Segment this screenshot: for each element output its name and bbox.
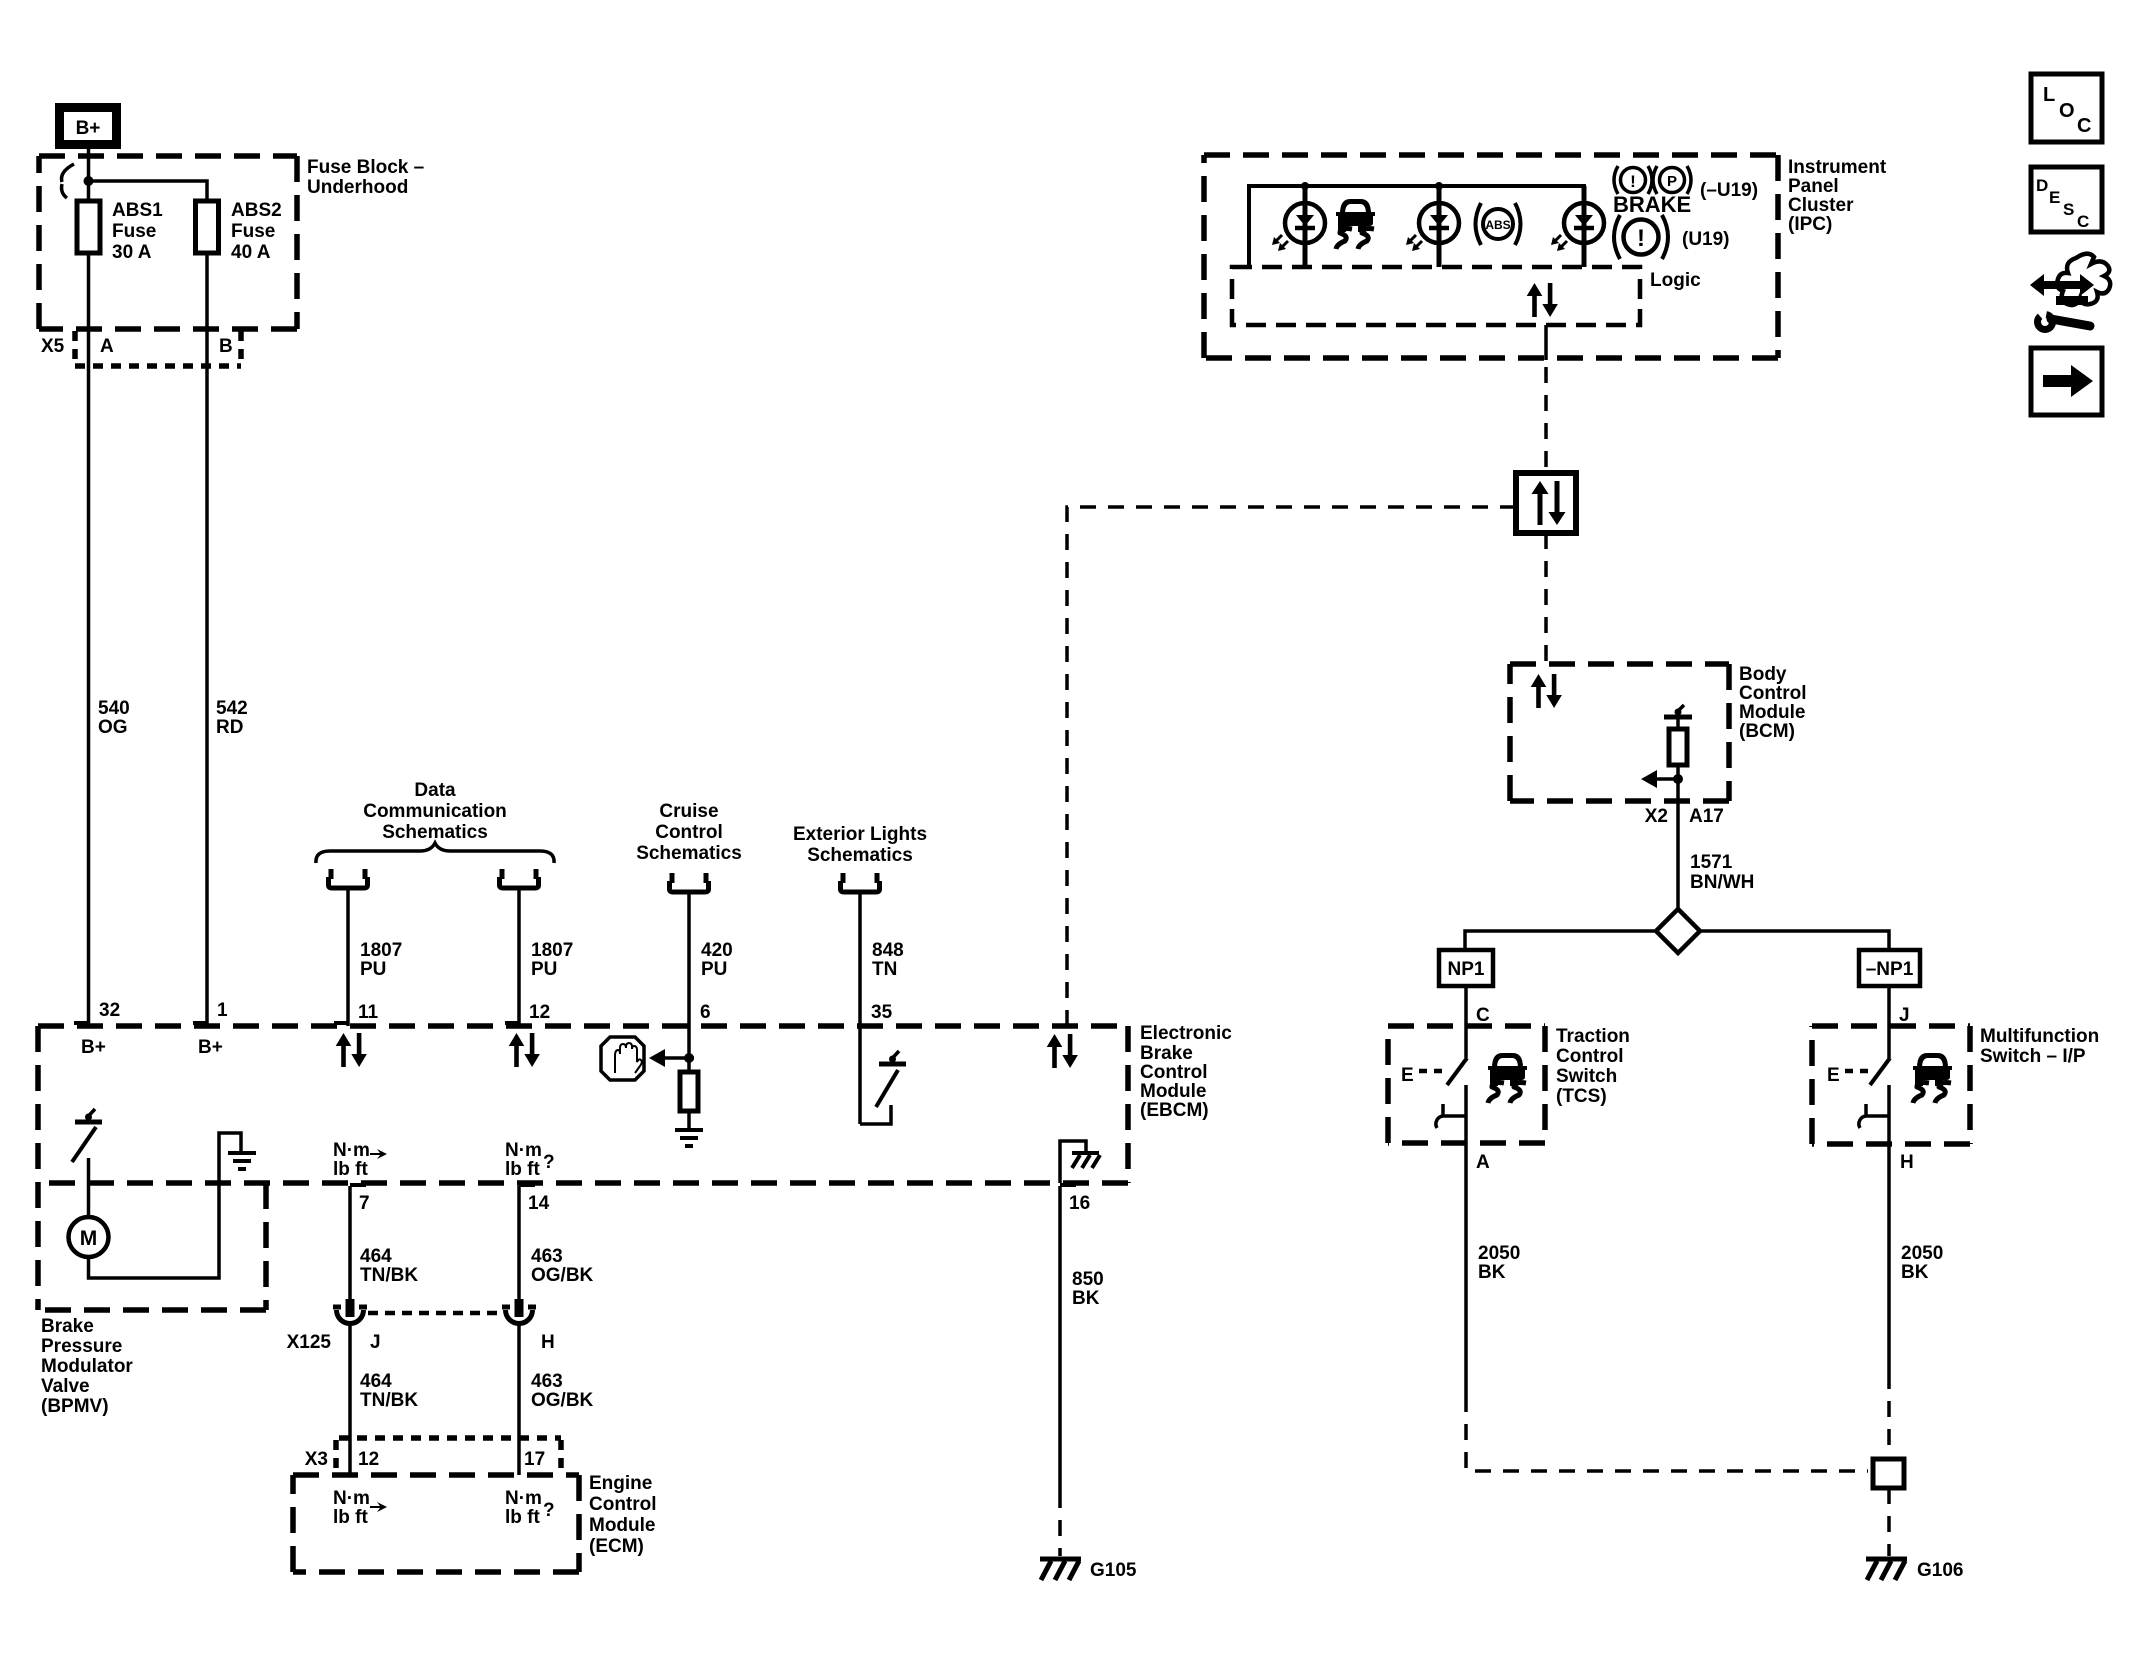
label 464 TN/BK lower bbox=[360, 1371, 418, 1411]
svg-text:–NP1: –NP1 bbox=[1866, 959, 1914, 980]
module ECM box bbox=[293, 1475, 579, 1572]
svg-text:Valve: Valve bbox=[41, 1376, 90, 1397]
pin 11 bbox=[334, 1002, 379, 1023]
svg-text:lb ft: lb ft bbox=[505, 1159, 540, 1180]
wire logic to IPC edge bbox=[1544, 325, 1548, 360]
datalink arrows below pin 12 bbox=[509, 1033, 540, 1067]
icon arrow next bbox=[2031, 348, 2102, 415]
svg-text:J: J bbox=[1899, 1005, 1910, 1026]
svg-text:OG/BK: OG/BK bbox=[531, 1265, 594, 1286]
svg-text:A: A bbox=[1476, 1152, 1490, 1173]
svg-text:!: ! bbox=[1637, 225, 1645, 252]
svg-text:(IPC): (IPC) bbox=[1788, 214, 1832, 235]
svg-text:6: 6 bbox=[700, 1002, 711, 1023]
svg-text:E: E bbox=[1401, 1065, 1414, 1086]
svg-text:H: H bbox=[1900, 1152, 1914, 1173]
wire 848 TN bbox=[858, 892, 862, 1124]
lamp brake indicator bbox=[1551, 203, 1604, 251]
svg-text:Fuse Block –: Fuse Block – bbox=[307, 157, 424, 178]
svg-text:OG/BK: OG/BK bbox=[531, 1390, 594, 1411]
wire dashed left to splice square bbox=[1466, 1396, 1868, 1471]
label ABS1 fuse bbox=[112, 200, 163, 263]
svg-text:Switch – I/P: Switch – I/P bbox=[1980, 1046, 2086, 1067]
svg-text:lb ft: lb ft bbox=[505, 1507, 540, 1528]
svg-text:X3: X3 bbox=[305, 1449, 328, 1470]
ground earth inside EBCM left bbox=[228, 1153, 256, 1169]
module EBCM box bbox=[38, 1026, 1128, 1310]
svg-text:30 A: 30 A bbox=[112, 242, 152, 263]
svg-text:Schematics: Schematics bbox=[807, 845, 913, 866]
wire 542 RD vertical to EBCM pin 1 bbox=[205, 201, 209, 1026]
ground G105 bbox=[1040, 1559, 1137, 1581]
svg-text:Traction: Traction bbox=[1556, 1026, 1630, 1047]
svg-text:X125: X125 bbox=[287, 1332, 332, 1353]
wire motor return bbox=[89, 1133, 242, 1278]
splice diamond bbox=[1656, 909, 1700, 953]
ground earth cruise bbox=[675, 1130, 703, 1146]
resistor BCM pullup bbox=[1664, 705, 1692, 911]
label 1807 PU right bbox=[531, 940, 573, 980]
svg-text:35: 35 bbox=[871, 1002, 893, 1023]
svg-text:464: 464 bbox=[360, 1246, 392, 1267]
svg-text:463: 463 bbox=[531, 1371, 563, 1392]
switch MFS bbox=[1827, 1058, 1890, 1186]
svg-text:Schematics: Schematics bbox=[636, 843, 742, 864]
svg-text:Electronic: Electronic bbox=[1140, 1023, 1232, 1044]
wire dashed to G105 bbox=[1058, 1492, 1062, 1556]
module IPC box bbox=[1204, 155, 1778, 358]
svg-text:TN/BK: TN/BK bbox=[360, 1390, 418, 1411]
svg-text:J: J bbox=[370, 1332, 381, 1353]
svg-text:850: 850 bbox=[1072, 1269, 1104, 1290]
svg-text:463: 463 bbox=[531, 1246, 563, 1267]
module BCM box bbox=[1510, 664, 1729, 801]
svg-text:Cluster: Cluster bbox=[1788, 195, 1854, 216]
svg-text:1807: 1807 bbox=[360, 940, 402, 961]
svg-text:Control: Control bbox=[1140, 1062, 1208, 1083]
svg-text:Brake: Brake bbox=[41, 1316, 94, 1337]
svg-text:Fuse: Fuse bbox=[112, 221, 156, 242]
wire splice left to NP1 bbox=[1465, 931, 1656, 950]
junction node bbox=[84, 176, 94, 186]
icon diagnostic pointer bbox=[2030, 254, 2110, 330]
svg-text:14: 14 bbox=[528, 1193, 550, 1214]
wire dashed right to splice square bbox=[1887, 1373, 1891, 1459]
node -NP1 bbox=[1859, 950, 1920, 986]
svg-text:Control: Control bbox=[1556, 1046, 1624, 1067]
svg-text:ABS1: ABS1 bbox=[112, 200, 163, 221]
label TCS bbox=[1556, 1026, 1630, 1107]
svg-text:(–U19): (–U19) bbox=[1700, 180, 1758, 201]
svg-text:(BPMV): (BPMV) bbox=[41, 1396, 109, 1417]
svg-text:420: 420 bbox=[701, 940, 733, 961]
pin 16 bbox=[1060, 1185, 1090, 1214]
label EBCM bbox=[1140, 1023, 1232, 1121]
label N.m lb ft ECM right bbox=[505, 1488, 555, 1528]
svg-text:(TCS): (TCS) bbox=[1556, 1086, 1607, 1107]
label BCM bbox=[1739, 664, 1807, 742]
wire 1807 PU right bbox=[517, 888, 521, 1026]
label N.m lb ft ECM left bbox=[333, 1488, 387, 1528]
label Fuse Block - Underhood bbox=[307, 157, 424, 198]
svg-text:Modulator: Modulator bbox=[41, 1356, 133, 1377]
svg-text:Switch: Switch bbox=[1556, 1066, 1617, 1087]
label Data Communication Schematics bbox=[363, 780, 507, 843]
icon LOC bbox=[2031, 74, 2102, 142]
svg-text:Module: Module bbox=[1739, 702, 1806, 723]
svg-text:Underhood: Underhood bbox=[307, 177, 408, 198]
svg-text:BK: BK bbox=[1478, 1262, 1506, 1283]
datalink arrows logic bbox=[1527, 283, 1558, 317]
arrow to stop icon bbox=[649, 1049, 694, 1067]
fuse block underhood box bbox=[39, 156, 297, 329]
junction node BCM bbox=[1673, 774, 1683, 784]
wire 1807 PU left bbox=[346, 888, 350, 1026]
svg-text:32: 32 bbox=[99, 1000, 120, 1021]
label MFS bbox=[1980, 1026, 2099, 1067]
label 463 OG/BK lower bbox=[531, 1371, 594, 1411]
svg-text:X5: X5 bbox=[41, 336, 65, 357]
module TCS box bbox=[1388, 1026, 1545, 1143]
svg-text:B+: B+ bbox=[76, 118, 101, 139]
svg-text:C: C bbox=[1476, 1005, 1490, 1026]
svg-text:(ECM): (ECM) bbox=[589, 1536, 644, 1557]
node bus lamp1 bbox=[1301, 182, 1309, 190]
datalink arrows BCM bbox=[1531, 674, 1562, 708]
logic box bbox=[1232, 267, 1640, 325]
svg-text:G105: G105 bbox=[1090, 1560, 1137, 1581]
label 1571 BN/WH bbox=[1690, 852, 1754, 893]
wire splice right to -NP1 bbox=[1700, 931, 1889, 950]
svg-text:Module: Module bbox=[1140, 1081, 1207, 1102]
datalink arrows below pin 11 bbox=[336, 1033, 367, 1067]
svg-text:lb ft: lb ft bbox=[333, 1159, 368, 1180]
wire 463 OG/BK upper bbox=[517, 1186, 521, 1300]
svg-text:Instrument: Instrument bbox=[1788, 157, 1887, 178]
svg-text:(BCM): (BCM) bbox=[1739, 721, 1795, 742]
brace bbox=[316, 843, 554, 863]
pin 12 bbox=[505, 1002, 550, 1023]
connector X125 terminal J bbox=[333, 1299, 367, 1324]
node NP1 bbox=[1439, 950, 1493, 986]
wire 464 TN/BK upper bbox=[348, 1186, 352, 1300]
power node B+ bbox=[55, 103, 121, 149]
svg-text:BK: BK bbox=[1072, 1288, 1100, 1309]
svg-text:P: P bbox=[1667, 173, 1677, 190]
svg-text:X2: X2 bbox=[1645, 806, 1668, 827]
icon ABS bbox=[1476, 203, 1521, 245]
label 420 PU bbox=[701, 940, 733, 980]
svg-text:12: 12 bbox=[529, 1002, 550, 1023]
wire lamp2 bbox=[1437, 186, 1442, 267]
svg-text:TN/BK: TN/BK bbox=[360, 1265, 418, 1286]
icon brake warn small bbox=[1614, 166, 1652, 194]
svg-text:!: ! bbox=[1630, 172, 1636, 191]
icon park brake small bbox=[1653, 166, 1691, 194]
svg-text:Communication: Communication bbox=[363, 801, 507, 822]
svg-text:Pressure: Pressure bbox=[41, 1336, 122, 1357]
svg-text:O: O bbox=[2059, 100, 2075, 122]
icon brake warn big bbox=[1614, 215, 1668, 259]
svg-text:(EBCM): (EBCM) bbox=[1140, 1100, 1209, 1121]
wire 2050 BK right bbox=[1887, 1186, 1891, 1373]
svg-text:464: 464 bbox=[360, 1371, 392, 1392]
switch exterior lights inside EBCM bbox=[860, 1051, 906, 1124]
svg-text:NP1: NP1 bbox=[1448, 959, 1485, 980]
wire dashed IPC to datalink box bbox=[1544, 367, 1548, 473]
svg-text:2050: 2050 bbox=[1901, 1243, 1943, 1264]
svg-text:11: 11 bbox=[358, 1002, 379, 1023]
wire lamp1 bbox=[1303, 186, 1308, 267]
wire -NP1 to MFS bbox=[1887, 986, 1891, 1058]
stop icon octagon hand bbox=[601, 1037, 644, 1080]
label 540 OG bbox=[98, 698, 130, 738]
wire lamp3 bbox=[1582, 186, 1587, 267]
svg-text:Control: Control bbox=[589, 1494, 657, 1515]
svg-text:848: 848 bbox=[872, 940, 904, 961]
offpage connector data1 bbox=[329, 869, 368, 888]
offpage connector exterior bbox=[841, 873, 880, 892]
svg-text:S: S bbox=[2063, 200, 2074, 219]
svg-text:Data: Data bbox=[414, 780, 456, 801]
svg-text:1807: 1807 bbox=[531, 940, 573, 961]
svg-text:Brake: Brake bbox=[1140, 1043, 1193, 1064]
svg-text:Exterior Lights: Exterior Lights bbox=[793, 824, 927, 845]
fuse ABS2 40A bbox=[196, 201, 219, 253]
label ABS2 fuse bbox=[231, 200, 282, 263]
bus clip symbol bbox=[62, 164, 75, 198]
svg-text:16: 16 bbox=[1069, 1193, 1090, 1214]
label 463 OG/BK upper bbox=[531, 1246, 594, 1286]
datalink connector box bbox=[1516, 473, 1576, 533]
svg-text:Fuse: Fuse bbox=[231, 221, 275, 242]
svg-text:1571: 1571 bbox=[1690, 852, 1733, 873]
svg-text:N·m: N·m bbox=[333, 1140, 370, 1161]
svg-text:B+: B+ bbox=[198, 1037, 223, 1058]
svg-text:Control: Control bbox=[655, 822, 723, 843]
label ECM bbox=[589, 1473, 657, 1557]
wire 540 OG vertical from B+ to EBCM pin 32 bbox=[87, 149, 91, 1026]
label N.m lb ft pin14 bbox=[505, 1140, 555, 1180]
wire 463 OG/BK lower bbox=[517, 1324, 521, 1475]
icon DESC bbox=[2031, 167, 2102, 232]
connector X5 bbox=[75, 331, 241, 366]
wire 850 BK pin16 bbox=[1058, 1186, 1062, 1492]
svg-text:17: 17 bbox=[524, 1449, 545, 1470]
splice square bbox=[1873, 1459, 1904, 1488]
svg-text:Engine: Engine bbox=[589, 1473, 652, 1494]
motor M pump bbox=[69, 1217, 109, 1257]
svg-text:C: C bbox=[2077, 115, 2091, 137]
svg-text:ABS2: ABS2 bbox=[231, 200, 282, 221]
svg-text:2050: 2050 bbox=[1478, 1243, 1520, 1264]
svg-text:E: E bbox=[2049, 188, 2060, 207]
svg-text:12: 12 bbox=[358, 1449, 379, 1470]
svg-text:542: 542 bbox=[216, 698, 248, 719]
label 542 RD bbox=[216, 698, 248, 738]
junction node pin6 bbox=[684, 1053, 694, 1063]
svg-text:RD: RD bbox=[216, 717, 243, 738]
svg-text:Cruise: Cruise bbox=[659, 801, 718, 822]
module MFS box bbox=[1812, 1026, 1970, 1144]
arrow BCM signal bbox=[1641, 770, 1678, 788]
svg-text:A17: A17 bbox=[1689, 806, 1724, 827]
svg-text:Multifunction: Multifunction bbox=[1980, 1026, 2099, 1047]
svg-text:Module: Module bbox=[589, 1515, 656, 1536]
pump relay switch inside EBCM bbox=[72, 1109, 102, 1217]
datalink arrows right side bbox=[1047, 1034, 1078, 1068]
module BPMV box bbox=[38, 1183, 266, 1310]
wire 420 PU bbox=[687, 892, 691, 1058]
offpage connector cruise bbox=[670, 873, 709, 892]
label 850 BK bbox=[1072, 1269, 1104, 1309]
svg-text:(U19): (U19) bbox=[1682, 229, 1730, 250]
svg-text:BRAKE: BRAKE bbox=[1613, 192, 1691, 217]
svg-text:H: H bbox=[541, 1332, 555, 1353]
pin 14 bbox=[519, 1185, 550, 1214]
label BPMV bbox=[41, 1316, 133, 1417]
svg-text:BN/WH: BN/WH bbox=[1690, 872, 1754, 893]
ground chassis near pin 16 bbox=[1060, 1141, 1100, 1183]
ground G106 bbox=[1866, 1559, 1963, 1581]
wire dashed to G106 bbox=[1887, 1488, 1891, 1556]
label 1807 PU left bbox=[360, 940, 402, 980]
svg-text:40 A: 40 A bbox=[231, 242, 271, 263]
svg-text:Logic: Logic bbox=[1650, 270, 1701, 291]
label 2050 BK left bbox=[1478, 1243, 1520, 1283]
connector X125 terminal H bbox=[502, 1299, 536, 1324]
svg-text:D: D bbox=[2036, 176, 2048, 195]
label Cruise Control Schematics bbox=[636, 801, 742, 864]
svg-text:N·m: N·m bbox=[505, 1488, 542, 1509]
svg-text:OG: OG bbox=[98, 717, 128, 738]
node bus lamp2 bbox=[1435, 182, 1443, 190]
resistor inside EBCM bbox=[680, 1058, 698, 1128]
wire dashed datalink to BCM bbox=[1544, 533, 1548, 664]
svg-text:C: C bbox=[2077, 212, 2089, 231]
svg-text:PU: PU bbox=[701, 959, 727, 980]
icon car skid TCS bbox=[1488, 1053, 1527, 1103]
svg-text:N·m: N·m bbox=[505, 1140, 542, 1161]
label 2050 BK right bbox=[1901, 1243, 1943, 1283]
svg-text:G106: G106 bbox=[1917, 1560, 1963, 1581]
offpage connector data2 bbox=[500, 869, 539, 888]
lamp traction indicator bbox=[1272, 203, 1325, 251]
pin 7 bbox=[350, 1185, 370, 1214]
svg-text:Panel: Panel bbox=[1788, 176, 1839, 197]
pin 1 bbox=[193, 1000, 228, 1023]
wire branch to ABS2 fuse bbox=[89, 181, 208, 201]
wire 2050 BK left bbox=[1464, 1186, 1468, 1396]
svg-text:7: 7 bbox=[359, 1193, 370, 1214]
svg-text:TN: TN bbox=[872, 959, 897, 980]
svg-text:PU: PU bbox=[531, 959, 557, 980]
svg-text:N·m: N·m bbox=[333, 1488, 370, 1509]
svg-text:L: L bbox=[2043, 84, 2055, 106]
icon car skid MFS bbox=[1913, 1053, 1952, 1103]
label Exterior Lights Schematics bbox=[793, 824, 927, 866]
svg-text:A: A bbox=[100, 336, 114, 357]
svg-text:PU: PU bbox=[360, 959, 386, 980]
label 848 TN bbox=[872, 940, 904, 980]
switch TCS bbox=[1401, 1058, 1467, 1186]
svg-text:E: E bbox=[1827, 1065, 1840, 1086]
svg-text:?: ? bbox=[543, 1500, 555, 1521]
label IPC bbox=[1788, 157, 1887, 235]
wire lamp bus bbox=[1249, 186, 1586, 267]
svg-text:ABS: ABS bbox=[1485, 218, 1510, 232]
label 464 TN/BK upper bbox=[360, 1246, 418, 1286]
pin 32 bbox=[74, 1000, 120, 1023]
label N.m lb ft pin7 bbox=[333, 1140, 387, 1180]
svg-text:B+: B+ bbox=[81, 1037, 106, 1058]
icon car skid IPC bbox=[1336, 199, 1375, 249]
svg-text:M: M bbox=[80, 1227, 98, 1250]
svg-text:?: ? bbox=[543, 1152, 555, 1173]
wire 464 TN/BK lower bbox=[348, 1324, 352, 1475]
svg-text:Control: Control bbox=[1739, 683, 1807, 704]
svg-text:540: 540 bbox=[98, 698, 130, 719]
fuse ABS1 30A bbox=[77, 201, 100, 253]
connector X3 bbox=[336, 1438, 561, 1472]
svg-text:B: B bbox=[219, 336, 233, 357]
lamp ABS indicator bbox=[1406, 203, 1459, 251]
wire dashed datalink to EBCM bbox=[1067, 507, 1516, 1026]
svg-text:BK: BK bbox=[1901, 1262, 1929, 1283]
svg-text:1: 1 bbox=[217, 1000, 228, 1021]
svg-text:lb ft: lb ft bbox=[333, 1507, 368, 1528]
svg-text:Body: Body bbox=[1739, 664, 1787, 685]
wire NP1 to TCS bbox=[1464, 986, 1468, 1058]
connector X125 dashed link bbox=[368, 1311, 502, 1316]
